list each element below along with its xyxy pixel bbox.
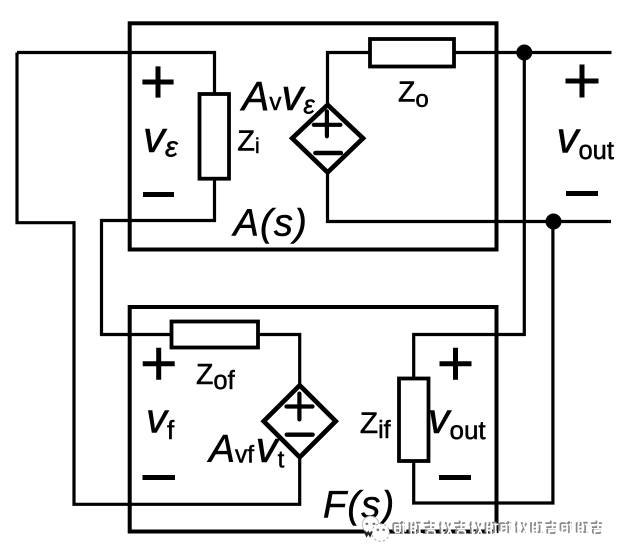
resistor Zif <box>399 379 429 462</box>
minus sign port v_f <box>143 475 176 480</box>
wire output top node down to Zif feed <box>414 53 525 379</box>
plus sign port v_eps <box>142 66 173 97</box>
plus sign port v_out top <box>566 65 599 98</box>
minus sign inside U1 <box>316 151 341 156</box>
dependent source U1 A_v*v_eps diamond <box>292 105 363 173</box>
wire feedback left loop: from top input corner down and to F(s) input <box>17 53 300 505</box>
plus sign inside U2 <box>287 394 313 420</box>
node dot output bottom <box>546 214 562 230</box>
wire U1 top to Zo left <box>328 53 371 104</box>
block F(s) box <box>130 307 497 532</box>
resistor Zof <box>172 322 259 348</box>
plus sign port v_f <box>143 348 175 380</box>
svg-text:A(s): A(s) <box>232 203 308 245</box>
svg-text:F(s): F(s) <box>323 485 395 527</box>
wire v_eps top: input node to Zi top <box>17 53 215 95</box>
block A(s) box <box>130 23 497 249</box>
wire U1 bottom to output bottom rail <box>328 172 612 221</box>
wire Zof right to dependent source E2 top <box>258 335 300 386</box>
resistor Zi <box>200 94 230 179</box>
node dot output top <box>516 45 532 61</box>
plus sign port v_out bottom <box>440 348 472 380</box>
wire Zif bottom to output bottom node <box>414 222 553 504</box>
watermark logo <box>362 516 389 541</box>
minus sign port v_eps <box>143 192 174 197</box>
minus sign inside U2 <box>287 433 313 437</box>
plus sign inside U1 <box>314 111 341 136</box>
resistor Zo <box>370 39 454 67</box>
wire Zi bottom to v_eps bottom rail down to Zof left <box>102 179 215 335</box>
dependent source U2 A_vf*v_t diamond <box>264 385 336 457</box>
minus sign port v_out top <box>566 191 598 196</box>
minus sign port v_out bottom <box>439 475 471 480</box>
wire Zo right to output top terminal <box>454 51 612 54</box>
